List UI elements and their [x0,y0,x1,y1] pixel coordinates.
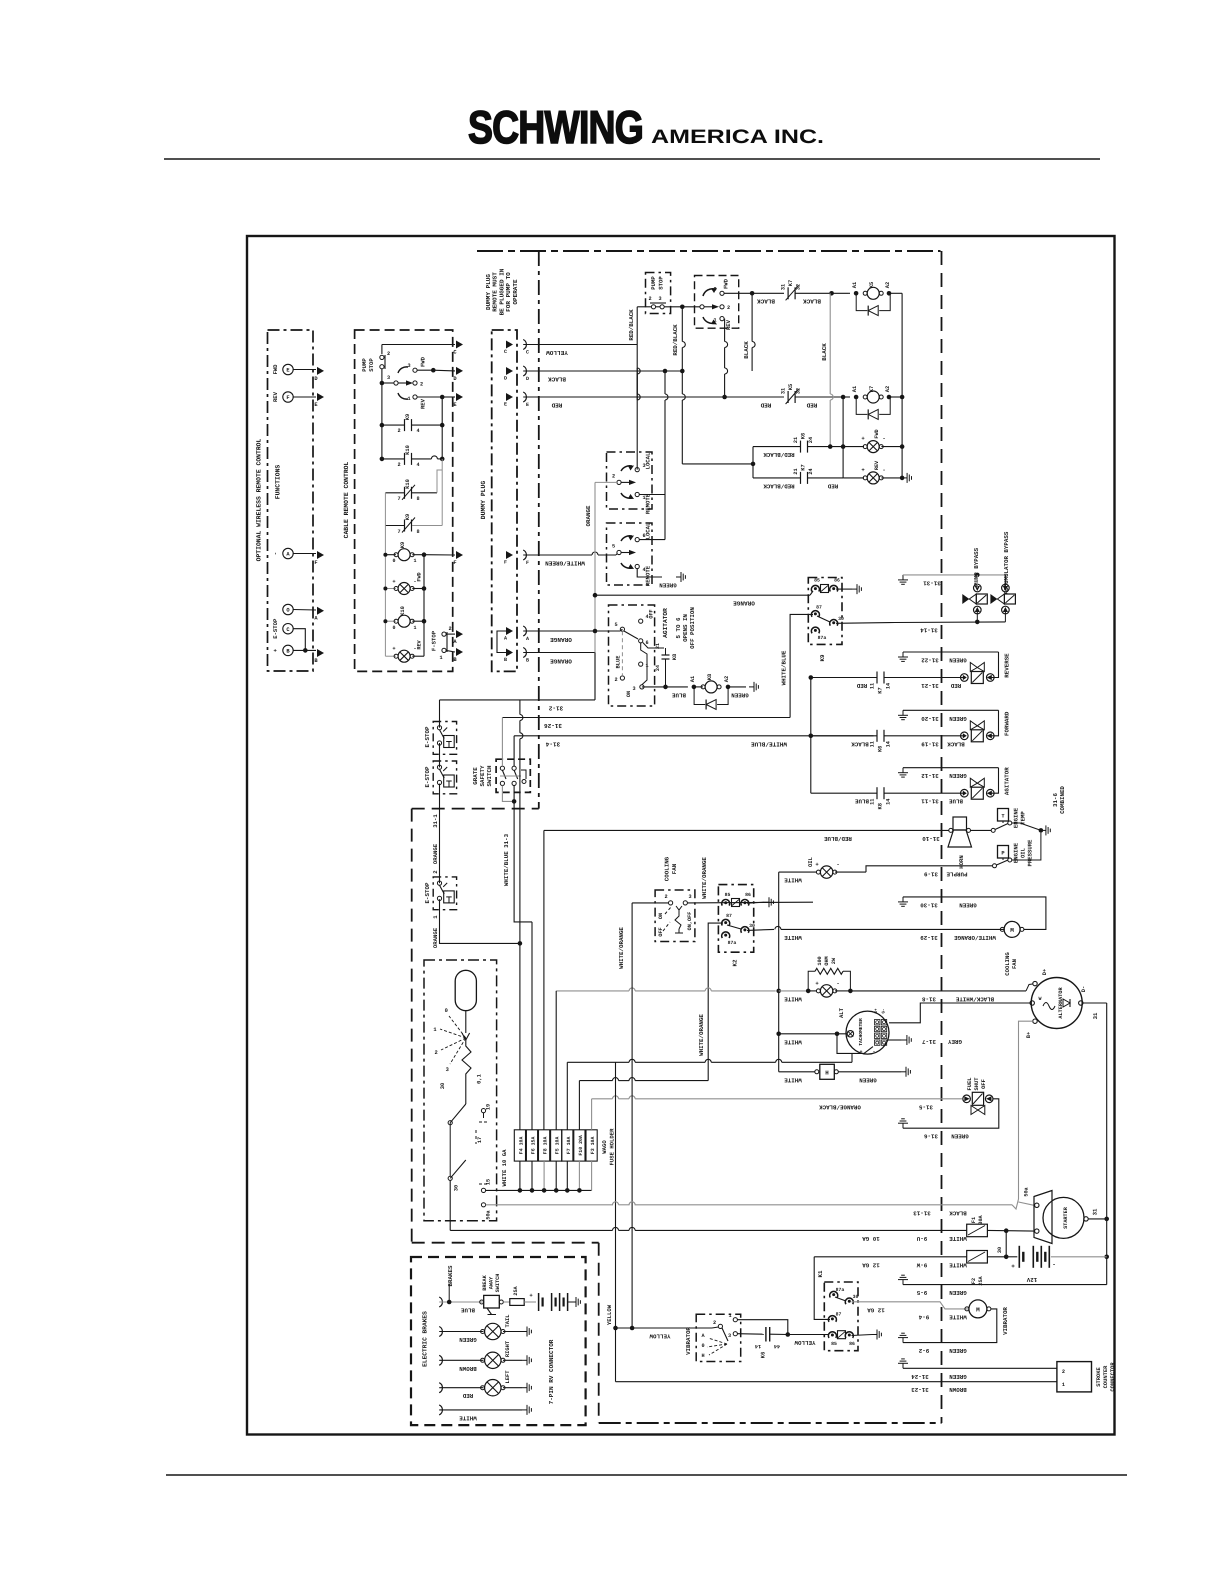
svg-text:12 GA: 12 GA [867,1306,885,1313]
svg-text:OIL: OIL [807,856,814,867]
svg-text:31-9: 31-9 [924,870,938,877]
svg-text:2: 2 [387,351,390,357]
svg-text:BLACK: BLACK [548,376,566,383]
wire 15 row to fuses [486,1189,592,1191]
junction dot A row [593,629,598,634]
svg-text:SWITCH: SWITCH [495,1274,501,1293]
connector pin B box2 [456,648,463,656]
svg-text:D: D [504,376,507,382]
svg-text:2: 2 [614,677,617,683]
svg-text:F-STOP: F-STOP [431,630,438,651]
svg-text:0: 0 [445,1008,448,1014]
svg-text:+: + [392,646,395,652]
svg-text:87a: 87a [818,635,827,641]
svg-text:87: 87 [836,1312,842,1318]
svg-text:12V: 12V [1026,1276,1037,1283]
wire B row ORANGE [523,652,595,654]
svg-text:K7: K7 [869,386,875,392]
svg-text:COUNTER: COUNTER [1103,1365,1109,1388]
machine boundary bottom dash-dot [599,1422,942,1424]
svg-text:2: 2 [612,474,615,480]
svg-text:24: 24 [808,468,814,474]
svg-text:WHITE/GREEN: WHITE/GREEN [545,560,585,567]
row RIGHT lamp [439,1355,442,1365]
svg-text:30: 30 [997,1247,1003,1253]
breakaway switch [484,1295,500,1308]
dummy plug pin D [506,367,513,375]
svg-text:REV: REV [272,391,279,402]
svg-text:K9: K9 [405,414,411,420]
wire F row WHITE/GREEN [523,554,592,556]
svg-text:31-29: 31-29 [920,934,938,941]
junction dot K5 row [829,291,834,296]
machine boundary horizontal y=1242 [412,1242,599,1244]
svg-text:BLACK: BLACK [949,1209,967,1216]
coil K5 [854,291,859,296]
valve FORWARD [961,732,969,740]
svg-text:85: 85 [814,578,820,584]
svg-text:RED/BLUE: RED/BLUE [824,835,852,842]
wire grate bottoms join [502,786,514,802]
wire tach row [779,1033,848,1035]
svg-text:A: A [504,636,507,642]
svg-text:K10: K10 [405,445,411,455]
svg-text:PUMP: PUMP [361,358,368,372]
svg-text:1: 1 [439,655,442,661]
wire 31-2 B orange to E-stops [594,653,596,700]
relay K2 [718,885,753,953]
svg-text:11: 11 [870,683,876,689]
svg-text:F2: F2 [971,1278,977,1284]
wire RED/BLACK vertical x=637 remote3 to pump stop [636,368,638,470]
fuse F8 [539,1130,550,1161]
terminal circle B [283,645,293,655]
svg-text:8: 8 [416,529,419,535]
svg-text:BLACK: BLACK [803,298,821,305]
31 bus vertical right [1106,1003,1108,1285]
svg-text:-: - [836,861,839,868]
svg-text:2: 2 [397,428,400,434]
svg-text:WHITE: WHITE [949,1235,967,1242]
svg-text:REV: REV [725,319,732,330]
svg-text:ORANGE: ORANGE [733,600,755,607]
svg-text:GREEN: GREEN [459,1336,477,1343]
wire ORANGE/BLACK fuel shutoff row [592,1098,613,1100]
svg-text:WHITE: WHITE [459,1414,477,1421]
wire cooling fan 3 to K2 85 [687,901,813,904]
svg-text:2W: 2W [831,957,837,964]
svg-text:+: + [392,579,395,585]
connector pin D box2 [456,367,463,375]
svg-text:F1: F1 [971,1217,977,1223]
wire vertical x=665 D row to local6 [664,371,666,394]
svg-text:0: 0 [392,558,395,564]
svg-text:30: 30 [454,1185,460,1191]
svg-text:ORANGE: ORANGE [432,927,439,948]
terminal circle C [283,624,293,634]
switch box COOLING FAN [655,890,695,942]
svg-text:FORWARD: FORWARD [1004,711,1011,736]
svg-text:9-2: 9-2 [918,1347,929,1354]
wire local6 from x665 [639,539,665,541]
relay K1 [824,1282,858,1351]
svg-text:86: 86 [745,892,751,898]
connector pin F box2 [456,551,463,559]
svg-text:SCHWING: SCHWING [468,101,643,153]
svg-text:31-31: 31-31 [923,579,941,586]
svg-text:4: 4 [416,462,419,468]
svg-text:FWD: FWD [723,278,730,289]
connector pin E box1 [317,393,324,401]
junction dot 31-4 x=810 [809,734,814,739]
svg-text:2: 2 [1062,1369,1065,1375]
svg-text:31-1: 31-1 [432,814,439,828]
svg-text:C: C [504,349,507,355]
svg-text:2: 2 [713,1320,716,1326]
starter solenoid [1034,1191,1052,1244]
svg-text:BLACK: BLACK [851,740,869,747]
svg-text:TACHOMETER: TACHOMETER [858,1018,864,1046]
contact K9 7-8 NC [385,525,404,527]
wire vertical BLACK x=752 to D row [751,293,753,341]
contact K5 31-32 NC [787,391,789,403]
svg-text:31-4: 31-4 [545,740,560,747]
box ELECTRIC BRAKES [411,1257,586,1425]
svg-text:5: 5 [612,544,615,550]
svg-text:BLACK: BLACK [743,341,750,359]
svg-text:31-23: 31-23 [911,1386,929,1393]
vibrator motor [969,1300,987,1318]
wire YELLOW row to vibrator switch [616,1327,713,1329]
ground 31-6 COMBINED [1041,829,1046,831]
diode K7 [856,397,867,414]
contact K7 21-24 [753,477,800,479]
svg-text:25A: 25A [513,1285,519,1295]
wire top rail FORWARD [903,709,999,711]
wire yellow to K1 85 [788,1334,829,1336]
svg-text:RED: RED [856,682,867,689]
svg-text:REV: REV [420,398,427,409]
valve PUMP BYPASS [974,584,982,592]
svg-text:M: M [976,1307,980,1314]
svg-text:REMOTE: REMOTE [645,493,652,514]
switch REMOTE/LOCAL agitator [607,523,653,585]
svg-text:F: F [504,560,507,566]
svg-text:1: 1 [728,1313,731,1319]
white bus vertical [778,872,780,1072]
svg-text:31-26: 31-26 [544,722,562,729]
switch box VIBRATOR [696,1314,741,1361]
wire fuel valve loop to ground [903,1099,999,1128]
wire F10 up to K2 87 [578,1081,580,1130]
dummy plug socket C [523,340,526,350]
svg-text:31-12: 31-12 [921,772,939,779]
stroke counter connector [1057,1362,1092,1392]
wire ignition 30 down to 9-U row [449,1180,451,1230]
wire FWD row to contact K7 [724,292,752,294]
svg-text:GREEN: GREEN [949,772,967,779]
machine boundary horizontal y=808 [412,808,539,810]
svg-text:31-7: 31-7 [922,1038,936,1045]
junction dot yellow K1 [786,1332,791,1337]
svg-text:BLACK: BLACK [821,343,828,361]
svg-text:WHITE: WHITE [949,1313,967,1320]
svg-text:-: - [882,435,885,442]
svg-text:ON,OFF: ON,OFF [687,912,693,931]
svg-text:BLUE: BLUE [461,1307,475,1314]
svg-text:2: 2 [397,462,400,468]
wire K9 30 to 31-14 rail [836,622,895,625]
svg-text:-: - [872,1049,875,1055]
svg-text:WHITE: WHITE [784,1076,802,1083]
svg-text:1: 1 [1062,1382,1065,1388]
wire estop out to F4 [440,899,520,943]
grate safety switch box [496,759,530,792]
wire fuse F3 pigtail [591,1161,593,1190]
row BLUE breakaway [439,1297,442,1307]
junction dot pump stop box2 [380,381,385,386]
coil K9 box2 [385,554,396,556]
ground AGITATOR valve [902,768,904,773]
svg-text:86: 86 [849,1341,855,1347]
svg-text:K7: K7 [878,687,884,693]
svg-text:3: 3 [658,296,661,302]
svg-text:VIBRATOR: VIBRATOR [685,1327,692,1355]
wire vertical x=843 [842,397,844,478]
diode K8 [694,687,705,705]
svg-text:1: 1 [433,1027,436,1033]
contact K8 agitator [666,651,672,653]
svg-text:-: - [1052,1261,1056,1268]
emergency stop switch 2 [433,761,456,794]
svg-text:GREEN: GREEN [949,1373,967,1380]
svg-text:ORANGE: ORANGE [550,657,572,664]
ignition contact 30/15/50a [449,1123,451,1176]
wire K1 86 ground [852,1335,873,1336]
svg-text:WHITE: WHITE [784,934,802,941]
machine boundary vertical x=598 [598,1243,600,1423]
svg-text:WHITE/ORANGE: WHITE/ORANGE [618,927,625,969]
wire top rail AGITATOR [903,767,999,769]
wire REV1 to E row [417,396,442,398]
wire fuse F8 pigtail [543,1161,545,1190]
valve REVERSE [961,674,969,682]
svg-text:2: 2 [727,305,730,311]
svg-text:PUMP BYPASS: PUMP BYPASS [973,547,980,586]
svg-text:F: F [453,560,456,566]
svg-text:21: 21 [655,643,661,649]
svg-text:FAN: FAN [671,863,678,874]
wire E to pin D [293,369,316,371]
svg-text:21: 21 [793,437,799,443]
coil K8 [694,686,703,688]
svg-text:A1: A1 [852,282,858,288]
svg-text:K7: K7 [801,464,807,470]
svg-text:31-13: 31-13 [913,1209,931,1216]
svg-text:REMOTE: REMOTE [645,565,652,586]
svg-text:B: B [504,657,507,663]
svg-text:14: 14 [886,741,892,747]
oil pressure switch [993,864,997,868]
capacitor K6 [737,1333,764,1336]
contact K7 11-14 [811,677,877,679]
machine boundary vertical right x=941 [941,251,943,1423]
svg-text:A1: A1 [690,676,696,682]
svg-text:GREEN: GREEN [859,1076,877,1083]
svg-text:RED: RED [827,482,838,489]
svg-text:E: E [504,402,507,408]
wire valve REVERSE right [990,652,998,678]
svg-text:30A: 30A [978,1214,984,1224]
svg-text:RED/BLACK: RED/BLACK [763,482,795,489]
wire fuse F7 pigtail [566,1161,568,1190]
svg-text:BLUE: BLUE [616,655,622,669]
svg-text:CONNECTOR: CONNECTOR [1110,1362,1116,1392]
svg-text:F7 10A: F7 10A [566,1137,572,1155]
cooling fan motor [1004,921,1020,937]
wire B+ join 50a [1012,1199,1019,1209]
svg-text:LOCAL: LOCAL [645,522,652,539]
svg-text:31-30: 31-30 [920,902,938,909]
wire cooling fan 2 left [632,902,668,904]
svg-text:VIBRATOR: VIBRATOR [1002,1307,1009,1335]
svg-text:K9: K9 [819,654,826,661]
svg-text:12 GA: 12 GA [862,1261,880,1268]
wire pump stop row [637,306,651,308]
svg-text:WHITE/ORANGE: WHITE/ORANGE [698,1014,705,1056]
svg-text:STOP: STOP [368,358,375,372]
wire A row ORANGE [523,630,595,632]
svg-text:WHITE: WHITE [949,1261,967,1268]
wire K1 87 from F2 row [814,1257,830,1320]
dummy plug socket A [523,626,526,636]
wire vertical x=615 to stroke counter [615,1062,617,1328]
svg-text:REV: REV [417,639,423,649]
wire ALT row gray [556,990,629,992]
wire local1 to x665 [639,494,665,496]
wire F8 up to horn row [543,830,545,1129]
wire F3 up to fuel shutoff row [591,1099,593,1130]
svg-text:FUEL: FUEL [967,1078,973,1091]
wire pump stop3 vertical x=682 [681,307,683,342]
svg-text:RED: RED [760,402,771,409]
svg-text:BLUE: BLUE [949,798,963,805]
svg-text:E-STOP: E-STOP [424,766,431,787]
svg-text:24: 24 [808,437,814,443]
svg-text:PRESSURE: PRESSURE [1027,839,1034,866]
wire ORANGE vertical x=595 [595,481,617,483]
row LEFT lamp [439,1383,442,1393]
svg-text:ENGINE: ENGINE [1013,807,1020,828]
svg-text:K6: K6 [878,746,884,752]
wire B to pin B [293,649,316,651]
svg-text:1: 1 [413,625,416,631]
machine boundary dash-dot top [477,250,941,252]
svg-text:K8: K8 [878,803,884,809]
svg-text:WAGO: WAGO [601,1140,608,1154]
wire F5 up to ALT row [555,991,557,1130]
fuse F1 30A [967,1224,988,1237]
wire fuse F10 pigtail [578,1161,580,1190]
lamp FWD pump [830,446,864,448]
box DUMMY PLUG [492,330,517,671]
svg-text:K10: K10 [400,606,406,616]
switch box AGITATOR [609,605,655,706]
wire alternator W to tach [889,1003,1030,1023]
svg-text:STROKE: STROKE [1096,1367,1102,1387]
contact K7 31-32 NC [787,287,789,299]
coil K7 [854,395,859,400]
svg-text:BROWN: BROWN [459,1365,477,1372]
svg-text:WHITE/ORANGE: WHITE/ORANGE [701,857,708,899]
svg-text:F4 10A: F4 10A [518,1137,524,1155]
svg-text:7: 7 [397,496,400,502]
svg-text:FWD: FWD [417,572,423,581]
rotary throws box2 [413,368,417,372]
svg-text:SAFETY: SAFETY [479,765,486,786]
svg-text:K10: K10 [405,479,411,489]
svg-text:2: 2 [434,1050,437,1056]
svg-text:FUNCTIONS: FUNCTIONS [275,465,282,500]
fuse F7 [562,1130,573,1161]
dummy plug socket B [523,648,526,658]
dummy plug pin C [506,341,513,349]
wire 31-4 WHITE/BLUE grate to K6 [514,735,811,737]
lamp FWD box2 [385,588,396,590]
svg-text:ELECTRIC BRAKES: ELECTRIC BRAKES [422,1311,429,1367]
svg-text:E-STOP: E-STOP [272,618,279,639]
outer schematic border [247,236,1115,1435]
svg-text:31-11: 31-11 [921,798,939,805]
connector pin E box2 [456,393,463,401]
wire white/blue vertical x=810 [810,678,812,794]
wire fuse F5 pigtail [555,1161,557,1190]
wire D feed to contacts 21-24 [682,463,753,465]
svg-text:F: F [526,560,529,566]
svg-text:87a: 87a [836,1287,845,1293]
svg-text:M: M [1010,927,1014,934]
svg-text:RED: RED [462,1392,473,1399]
lamp ALT [808,990,817,992]
switch FWD/REV local [695,276,739,329]
svg-text:F: F [286,395,289,401]
svg-text:STARTER: STARTER [1063,1206,1069,1229]
svg-text:BREAK: BREAK [482,1274,488,1290]
svg-text:K6: K6 [801,433,807,439]
svg-text:WHITE/ORANGE: WHITE/ORANGE [954,934,996,941]
svg-text:K5: K5 [869,282,875,288]
svg-text:E: E [526,402,529,408]
wire fstop to A pin [446,633,455,635]
wire 30 link [1005,1231,1007,1257]
svg-text:OFF: OFF [981,1079,987,1089]
dummy plug pin B [506,649,513,657]
dummy plug socket E [523,392,526,402]
svg-text:HORN: HORN [958,855,965,868]
wire K5 A2 to bus [889,292,902,294]
wire E row contact K5 [725,396,784,398]
svg-text:COMBINED: COMBINED [1059,786,1066,814]
wire D row BLACK [523,370,682,372]
fuse F5 [551,1130,562,1161]
svg-text:FWD: FWD [272,364,279,375]
wire F7 up to tach feed [566,1062,568,1130]
wire alternator D- to 31 bus [1083,1002,1107,1004]
svg-text:D: D [526,376,529,382]
svg-text:9-4: 9-4 [918,1313,929,1320]
wire vibrator 1 to junction [737,1320,787,1335]
junction dot pump stop out [680,305,685,310]
